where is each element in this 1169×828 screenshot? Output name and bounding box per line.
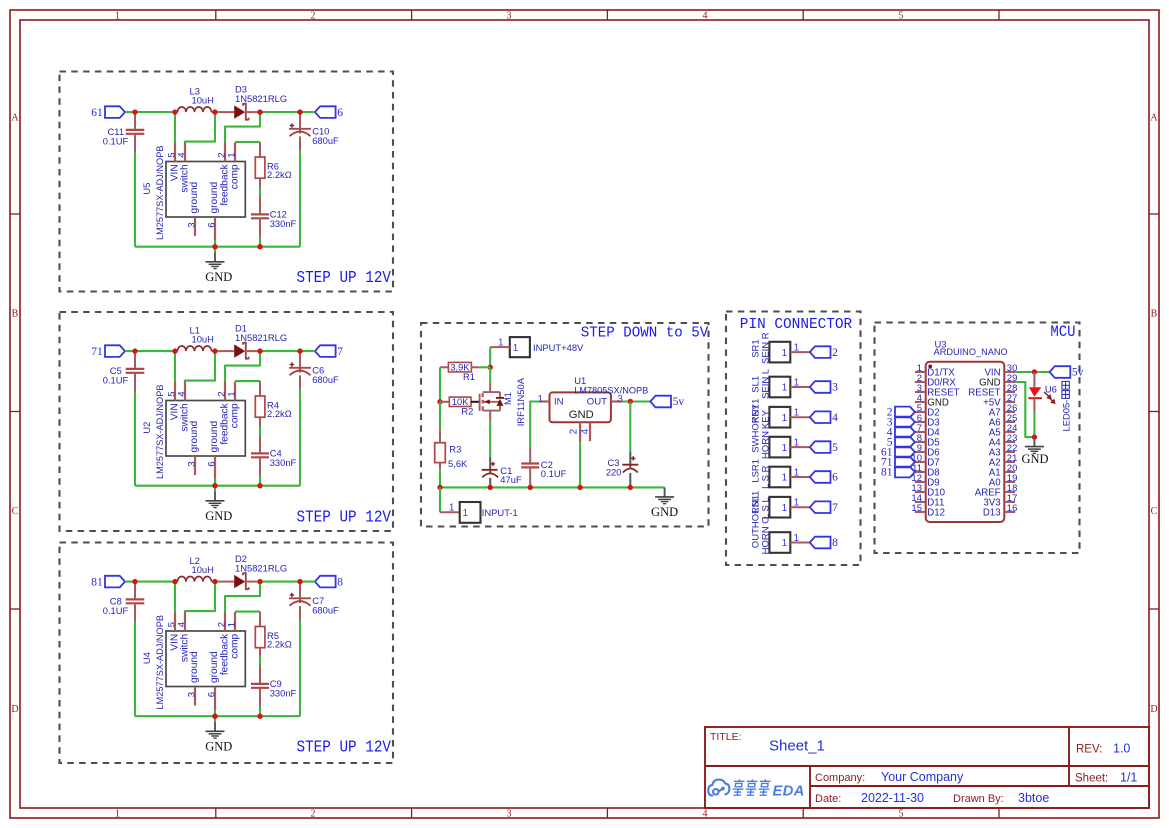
wire [134, 153, 136, 247]
svg-text:LM2577SX-ADJ/NOPB: LM2577SX-ADJ/NOPB [155, 385, 165, 479]
svg-text:GND: GND [205, 509, 232, 523]
svg-text:1: 1 [794, 408, 800, 419]
wire [235, 141, 260, 143]
wire [260, 581, 315, 583]
svg-text:R2: R2 [461, 405, 473, 416]
wire [135, 715, 300, 717]
svg-text:MCU: MCU [1050, 323, 1075, 341]
svg-text:ground: ground [209, 181, 220, 213]
svg-text:680uF: 680uF [312, 135, 339, 146]
pin 29 GND [1004, 381, 1015, 383]
svg-text:2: 2 [311, 808, 316, 819]
junction [437, 485, 442, 490]
svg-text:5: 5 [832, 442, 838, 454]
svg-text:4: 4 [176, 391, 187, 397]
title block [705, 727, 1149, 808]
svg-text:L S R: L S R [761, 465, 772, 489]
svg-text:1: 1 [794, 342, 800, 353]
wire [125, 581, 175, 583]
net port 6 [810, 471, 831, 483]
wire [439, 469, 441, 487]
svg-text:4: 4 [580, 428, 591, 434]
led U6 LED05 [1033, 372, 1035, 387]
svg-text:LED05-: LED05- [1060, 400, 1071, 432]
svg-text:1: 1 [782, 443, 788, 454]
svg-text:3: 3 [832, 382, 838, 394]
wire [225, 112, 260, 143]
svg-text:U1: U1 [574, 375, 586, 386]
capacitor C6 [299, 351, 301, 372]
ground [1033, 437, 1035, 446]
capacitor C7 [299, 582, 301, 603]
svg-text:2: 2 [569, 428, 580, 434]
pin 6 D3 [915, 421, 926, 423]
capacitor C11 [134, 112, 136, 129]
connector SL1 [769, 377, 790, 398]
pin 26 A7 [1004, 411, 1015, 413]
pin 27 +5V [1004, 401, 1015, 403]
connector INPUT+48V [510, 337, 530, 357]
svg-text:ground: ground [209, 651, 220, 683]
svg-text:GND: GND [205, 740, 232, 754]
net port 3 [810, 381, 831, 393]
net port 6 [315, 106, 336, 118]
wire [235, 380, 260, 382]
section box STEP UP 12V [60, 312, 394, 531]
pin 8 D5 [915, 441, 926, 443]
diode D2 [215, 581, 220, 583]
pin 7 D4 [915, 431, 926, 433]
wire [214, 240, 216, 253]
junction [172, 348, 177, 353]
connector OUTHORN1 [769, 532, 790, 553]
capacitor C12 [259, 196, 261, 214]
svg-text:ground: ground [189, 651, 200, 683]
svg-text:1N5821RLG: 1N5821RLG [235, 93, 287, 104]
junction [297, 109, 302, 114]
svg-text:Sheet:: Sheet: [1075, 773, 1108, 785]
junction [488, 485, 493, 490]
svg-text:1: 1 [794, 377, 800, 388]
svg-text:TITLE:: TITLE: [710, 731, 742, 743]
wire [1015, 371, 1050, 373]
pin 22 A3 [1004, 451, 1015, 453]
svg-text:7: 7 [832, 502, 838, 514]
op-amp U1 LM7805SX/NOPB [550, 392, 611, 422]
svg-text:3btoe: 3btoe [1018, 791, 1049, 805]
capacitor C3 [629, 452, 631, 468]
pin 2 D0/RX [915, 381, 926, 383]
svg-text:1: 1 [794, 467, 800, 478]
svg-text:A: A [11, 113, 19, 124]
junction [257, 348, 262, 353]
ground [214, 491, 216, 500]
wire [135, 485, 300, 487]
net port 5 [810, 441, 831, 453]
svg-text:2.2kΩ: 2.2kΩ [267, 169, 292, 180]
svg-text:5v: 5v [1072, 367, 1084, 379]
op-amp U5 LM2577SX-ADJ/NOPB [166, 162, 245, 218]
net port 8 [315, 576, 336, 588]
pin 4 GND [915, 401, 926, 403]
net port 7 [810, 501, 831, 513]
svg-text:R1: R1 [463, 371, 475, 382]
wire [260, 111, 315, 113]
svg-text:8: 8 [832, 537, 838, 549]
svg-text:2.2kΩ: 2.2kΩ [267, 639, 292, 650]
pin 11 D8 [915, 471, 926, 473]
wire [439, 367, 441, 402]
net port 2 [810, 346, 831, 358]
pin 24 A5 [1004, 431, 1015, 433]
connector SR1 [769, 342, 790, 363]
net port 81 [895, 467, 915, 478]
svg-text:5v: 5v [673, 396, 685, 408]
svg-text:1: 1 [226, 152, 237, 157]
net port 4 [895, 427, 915, 438]
svg-text:330nF: 330nF [270, 687, 297, 698]
svg-text:4: 4 [176, 152, 187, 158]
svg-text:1N5821RLG: 1N5821RLG [235, 562, 287, 573]
svg-text:B: B [1151, 308, 1158, 319]
pin 18 AREF [1004, 491, 1015, 493]
svg-text:Drawn By:: Drawn By: [953, 793, 1004, 805]
connector KEY1 [769, 407, 790, 428]
capacitor C5 [134, 351, 136, 368]
capacitor C4 [259, 435, 261, 453]
pin 19 A0 [1004, 481, 1015, 483]
svg-text:4: 4 [176, 621, 187, 627]
svg-text:4: 4 [832, 412, 838, 424]
svg-text:IRF11N50A: IRF11N50A [515, 377, 526, 426]
connector INPUT-1 [439, 487, 441, 512]
resistor R5 [259, 612, 261, 627]
svg-text:3: 3 [617, 394, 623, 405]
op-amp U2 LM2577SX-ADJ/NOPB [166, 401, 245, 457]
svg-text:4: 4 [703, 808, 708, 819]
wire [622, 400, 650, 402]
junction [257, 483, 262, 488]
wire [174, 112, 176, 143]
svg-text:D13: D13 [983, 507, 1001, 518]
junction [1032, 369, 1037, 374]
diode D3 [215, 111, 220, 113]
svg-text:71: 71 [91, 346, 103, 358]
wire [259, 707, 261, 717]
svg-text:680uF: 680uF [312, 374, 339, 385]
svg-text:B: B [12, 308, 19, 319]
wire [259, 426, 261, 435]
svg-text:330nF: 330nF [270, 457, 297, 468]
wire [489, 347, 491, 367]
svg-text:A: A [1150, 113, 1158, 124]
pin 16 D13 [1004, 511, 1015, 513]
svg-text:Sheet_1: Sheet_1 [769, 738, 825, 755]
svg-text:U2: U2 [141, 422, 152, 434]
junction [257, 714, 262, 719]
svg-text:1: 1 [537, 394, 543, 405]
svg-text:1: 1 [782, 383, 788, 394]
inductor L1 [175, 350, 178, 352]
pin 9 D6 [915, 451, 926, 453]
svg-text:1: 1 [782, 473, 788, 484]
svg-text:Your Company: Your Company [881, 770, 964, 784]
section box STEP DOWN to 5V [421, 323, 709, 527]
resistor R4 [259, 381, 261, 396]
svg-text:3: 3 [186, 222, 197, 227]
svg-text:1: 1 [226, 622, 237, 627]
svg-text:EDA: EDA [773, 783, 805, 799]
wire [259, 187, 261, 196]
junction [628, 399, 633, 404]
net port 2 [895, 407, 915, 418]
svg-text:1: 1 [226, 391, 237, 396]
net port 81 [105, 576, 125, 588]
svg-text:220: 220 [606, 467, 622, 478]
svg-text:ground: ground [189, 420, 200, 452]
net port 61 [105, 106, 125, 118]
junction [212, 483, 217, 488]
svg-text:STEP UP 12V: STEP UP 12V [297, 269, 392, 288]
wire [1015, 382, 1034, 437]
pin 2 [579, 422, 581, 441]
resistor R2 [440, 401, 449, 403]
wire [471, 401, 480, 403]
svg-text:6: 6 [206, 222, 217, 227]
wire [235, 611, 260, 613]
pin 21 A2 [1004, 461, 1015, 463]
wire [125, 350, 175, 352]
capacitor C2 [530, 402, 540, 448]
svg-text:GND: GND [651, 505, 678, 519]
section box PIN CONNECTOR [726, 312, 861, 566]
svg-text:HORN: HORN [761, 431, 772, 459]
pin 4 [589, 422, 591, 441]
svg-text:1: 1 [794, 498, 800, 509]
wire [1033, 412, 1035, 437]
svg-text:7: 7 [337, 346, 343, 358]
svg-text:LM7805SX/NOPB: LM7805SX/NOPB [574, 385, 648, 395]
junction [257, 244, 262, 249]
junction [528, 485, 533, 490]
svg-text:comp: comp [230, 403, 241, 428]
svg-text:1N5821RLG: 1N5821RLG [235, 332, 287, 343]
svg-text:D: D [11, 704, 18, 715]
svg-text:6: 6 [206, 692, 217, 697]
svg-text:4: 4 [703, 10, 708, 21]
junction [132, 109, 137, 114]
svg-text:KEY: KEY [761, 409, 772, 429]
net port 7 [315, 345, 336, 357]
svg-text:16: 16 [1007, 503, 1018, 514]
ground [214, 722, 216, 731]
wire [489, 421, 491, 458]
junction [172, 579, 177, 584]
wire [185, 582, 215, 613]
svg-text:680uF: 680uF [312, 604, 339, 615]
connector LSR1 [769, 467, 790, 488]
svg-text:ground: ground [189, 181, 200, 213]
svg-text:STEP UP 12V: STEP UP 12V [297, 508, 392, 527]
net port 5 [895, 437, 915, 448]
section box STEP UP 12V [60, 72, 394, 292]
inductor L2 [175, 581, 178, 583]
wire [259, 657, 261, 666]
svg-text:ground: ground [209, 420, 220, 452]
pin 14 D11 [915, 501, 926, 503]
capacitor C8 [134, 582, 136, 599]
svg-text:GND: GND [569, 409, 594, 421]
pin 13 D10 [915, 491, 926, 493]
wire [214, 479, 216, 492]
wire [174, 582, 176, 613]
svg-text:Date:: Date: [815, 793, 841, 805]
junction [132, 579, 137, 584]
svg-text:0.1UF: 0.1UF [103, 375, 129, 386]
svg-text:U5: U5 [141, 183, 152, 195]
svg-text:47uF: 47uF [500, 474, 522, 485]
op-amp U3 ARDUINO_NANO [926, 362, 1005, 522]
junction [257, 579, 262, 584]
svg-text:D12: D12 [927, 507, 945, 518]
pin 17 3V3 [1004, 501, 1015, 503]
junction [488, 365, 493, 370]
wire [214, 709, 216, 722]
svg-text:GND: GND [205, 270, 232, 284]
net port 3 [895, 417, 915, 428]
svg-text:1: 1 [115, 10, 120, 21]
pin 25 A6 [1004, 421, 1015, 423]
junction [577, 485, 582, 490]
net port 4 [810, 411, 831, 423]
junction [212, 348, 217, 353]
svg-text:LM2577SX-ADJ/NOPB: LM2577SX-ADJ/NOPB [155, 615, 165, 709]
junction [628, 485, 633, 490]
svg-text:3: 3 [186, 461, 197, 466]
pin 28 RESET [1004, 391, 1015, 393]
svg-text:3: 3 [507, 10, 512, 21]
svg-text:SEIN R: SEIN R [761, 332, 772, 364]
svg-text:U4: U4 [141, 652, 152, 664]
svg-text:Company:: Company: [815, 772, 865, 784]
wire [225, 351, 260, 382]
pin 10 D7 [915, 461, 926, 463]
svg-text:330nF: 330nF [270, 218, 297, 229]
svg-text:M1: M1 [502, 392, 513, 405]
wire [259, 476, 261, 486]
svg-text:1.0: 1.0 [1113, 742, 1130, 756]
svg-text:6: 6 [832, 472, 838, 484]
svg-text:10uH: 10uH [192, 334, 214, 345]
pin 15 D12 [915, 511, 926, 513]
svg-text:1: 1 [794, 437, 800, 448]
op-amp U4 LM2577SX-ADJ/NOPB [166, 631, 245, 687]
ground [214, 252, 216, 261]
wire ground rail [440, 486, 665, 488]
logo JLCEDA [708, 780, 729, 796]
svg-text:6: 6 [206, 461, 217, 466]
resistor R3 [439, 402, 441, 430]
svg-text:6: 6 [337, 107, 343, 119]
wire [125, 111, 175, 113]
junction [437, 399, 442, 404]
svg-text:0.1UF: 0.1UF [103, 605, 129, 616]
svg-text:REV:: REV: [1076, 744, 1102, 756]
capacitor C10 [299, 112, 301, 133]
junction [1032, 434, 1037, 439]
wire [259, 237, 261, 247]
section box STEP UP 12V [60, 543, 394, 764]
resistor R6 [259, 142, 261, 157]
connector SWHORN1 [769, 437, 790, 458]
diode D1 [215, 350, 220, 352]
pin 30 VIN [1004, 371, 1015, 373]
svg-text:81: 81 [881, 467, 893, 479]
svg-text:GND: GND [1021, 452, 1048, 466]
wire [135, 246, 300, 248]
svg-text:INPUT-1: INPUT-1 [482, 507, 518, 518]
net port 5v [650, 396, 671, 408]
inductor L3 [175, 111, 178, 113]
junction [297, 348, 302, 353]
junction [212, 714, 217, 719]
capacitor C9 [259, 666, 261, 684]
wire [134, 392, 136, 486]
svg-text:1: 1 [513, 343, 519, 354]
svg-text:C: C [12, 506, 19, 517]
svg-text:1: 1 [115, 808, 120, 819]
wire [185, 351, 215, 382]
svg-text:1: 1 [463, 508, 469, 519]
svg-text:LM2577SX-ADJ/NOPB: LM2577SX-ADJ/NOPB [155, 146, 165, 240]
wire [174, 351, 176, 382]
svg-text:15: 15 [911, 503, 922, 514]
svg-text:3: 3 [186, 692, 197, 697]
svg-text:C: C [1151, 506, 1158, 517]
junction [212, 579, 217, 584]
ground [664, 487, 666, 496]
svg-text:ARDUINO_NANO: ARDUINO_NANO [934, 347, 1008, 357]
pin 1 D1/TX [915, 371, 926, 373]
svg-text:10uH: 10uH [192, 564, 214, 575]
svg-text:1: 1 [498, 337, 504, 348]
svg-text:1: 1 [794, 533, 800, 544]
svg-text:D: D [1150, 704, 1157, 715]
svg-text:0.1UF: 0.1UF [103, 136, 129, 147]
connector LSL1 [769, 497, 790, 518]
pin 1 [540, 400, 550, 402]
svg-text:0.1UF: 0.1UF [541, 468, 567, 479]
svg-text:1/1: 1/1 [1120, 771, 1137, 785]
svg-text:5,6K: 5,6K [448, 458, 468, 469]
svg-text:1: 1 [449, 503, 455, 514]
svg-text:L S L: L S L [761, 497, 772, 519]
svg-text:comp: comp [230, 633, 241, 658]
svg-text:IN: IN [554, 396, 564, 407]
wire [225, 582, 260, 613]
wire [629, 402, 631, 452]
wire [299, 620, 301, 716]
svg-text:10uH: 10uH [192, 95, 214, 106]
net port 8 [810, 537, 831, 549]
svg-text:1: 1 [782, 348, 788, 359]
svg-text:U6: U6 [1045, 383, 1057, 394]
pin 12 D9 [915, 481, 926, 483]
svg-text:8: 8 [337, 576, 343, 588]
pin 3 [611, 400, 622, 402]
svg-text:1: 1 [782, 413, 788, 424]
svg-text:1: 1 [782, 538, 788, 549]
